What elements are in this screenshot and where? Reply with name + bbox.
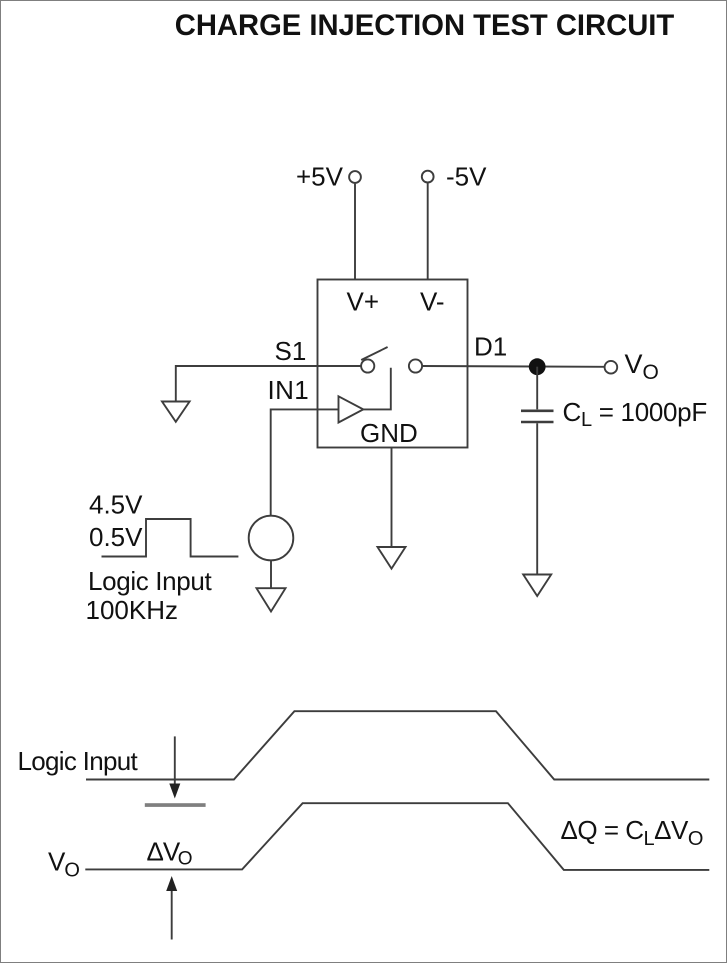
- buffer U2: [339, 396, 364, 422]
- terminal -5V: [422, 171, 434, 183]
- IC box U1: [318, 280, 468, 448]
- wire source to ground: [270, 560, 272, 588]
- arrow up shaft: [171, 889, 173, 940]
- svg-text:-5V: -5V: [446, 162, 487, 192]
- wire capacitor to ground: [536, 423, 538, 574]
- svg-text:ΔQ = CLΔVO: ΔQ = CLΔVO: [561, 815, 703, 850]
- switch S1 lever: [361, 347, 387, 360]
- wire S1 net: [176, 366, 361, 402]
- switch S1 right contact: [409, 359, 422, 372]
- ground left: [162, 402, 190, 422]
- wire -5V to V- pin: [427, 183, 429, 279]
- svg-text:Logic Input: Logic Input: [18, 746, 139, 776]
- wire GND pin down: [391, 448, 393, 548]
- svg-text:S1: S1: [275, 336, 307, 366]
- pulse waveform glyph: [102, 519, 239, 557]
- svg-text:CHARGE INJECTION TEST CIRCUIT: CHARGE INJECTION TEST CIRCUIT: [175, 10, 675, 42]
- svg-text:V-: V-: [420, 286, 445, 316]
- svg-text:4.5V: 4.5V: [89, 490, 143, 520]
- switch S1 left contact: [361, 359, 374, 372]
- junction node D1: [529, 358, 546, 375]
- logic input waveform: [86, 711, 709, 779]
- terminal Vo: [605, 361, 618, 374]
- svg-text:IN1: IN1: [268, 375, 310, 405]
- ground below CL: [523, 575, 551, 597]
- svg-text:GND: GND: [360, 418, 418, 448]
- source V1 circle: [249, 516, 294, 561]
- svg-text:D1: D1: [474, 332, 507, 362]
- svg-text:V+: V+: [347, 286, 380, 316]
- terminal +5V: [349, 171, 361, 183]
- wire D1 net: [422, 365, 604, 368]
- svg-text:Logic Input: Logic Input: [88, 566, 212, 596]
- arrow up head: [166, 876, 177, 891]
- reference tick: [145, 803, 206, 807]
- capacitor CL plates: [521, 409, 554, 412]
- Vo waveform: [85, 803, 709, 870]
- wire switch control and buffer output: [363, 368, 391, 410]
- ground GND pin: [378, 547, 406, 569]
- wire IN1: [271, 409, 339, 515]
- wire dot to capacitor: [536, 367, 538, 410]
- svg-text:+5V: +5V: [296, 162, 344, 192]
- svg-text:0.5V: 0.5V: [89, 522, 143, 552]
- wire +5V to V+ pin: [354, 184, 356, 280]
- svg-text:100KHz: 100KHz: [86, 595, 179, 625]
- arrow down shaft: [174, 736, 176, 785]
- arrow down head: [169, 784, 180, 799]
- ground below source: [257, 588, 286, 611]
